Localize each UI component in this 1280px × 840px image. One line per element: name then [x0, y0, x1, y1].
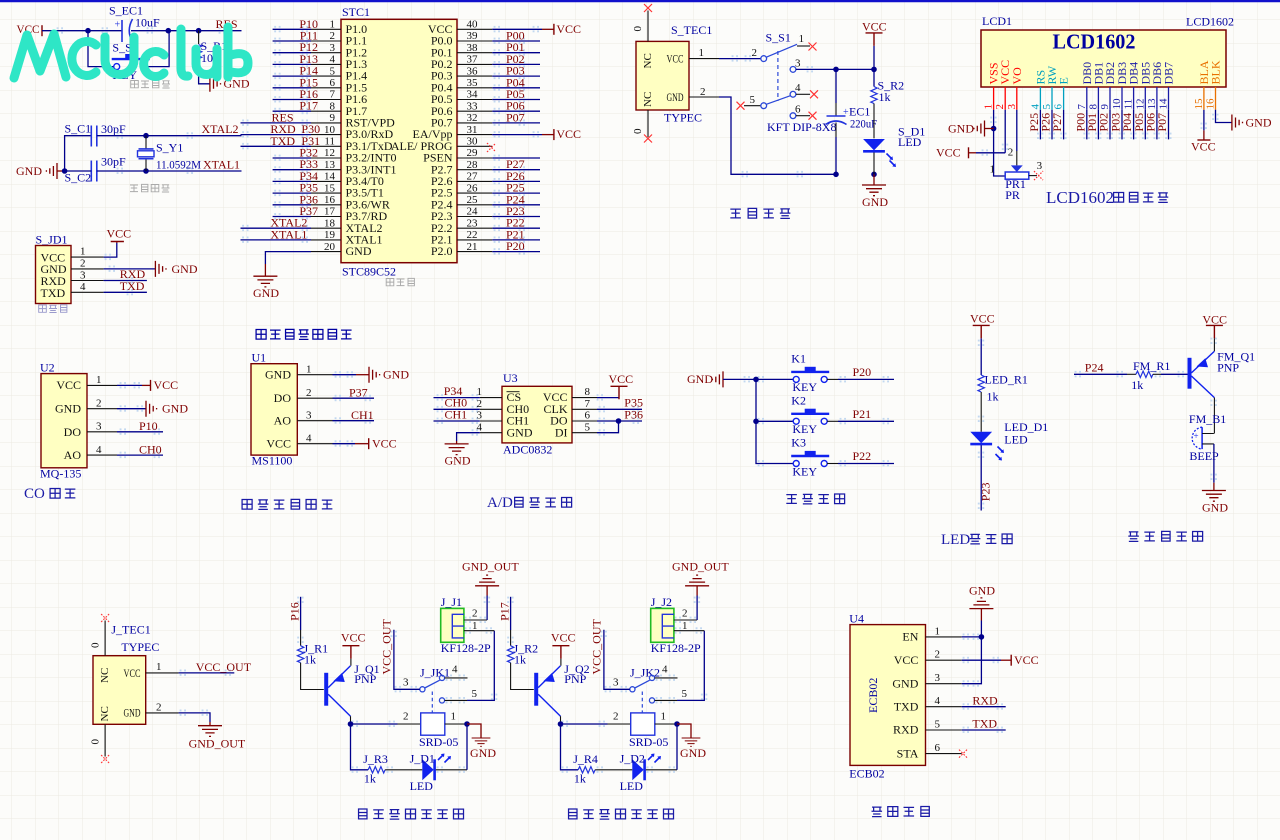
- svg-text:23: 23: [467, 217, 479, 229]
- connector J_J1 KF128-2P: [441, 595, 491, 655]
- svg-text:CH1: CH1: [445, 407, 468, 421]
- connector J_TEC1 TYPEC body: [93, 623, 159, 725]
- svg-text:36: 36: [467, 65, 479, 77]
- svg-text:GND: GND: [969, 584, 995, 598]
- svg-text:K1: K1: [791, 352, 806, 366]
- pin 0 top with X: [90, 614, 110, 656]
- title 按键电路: [786, 494, 844, 504]
- svg-text:STC89C52: STC89C52: [342, 265, 396, 279]
- svg-text:1: 1: [661, 711, 667, 723]
- svg-text:U1: U1: [252, 351, 267, 365]
- wire collector to coil node: [350, 716, 352, 724]
- svg-text:12: 12: [324, 147, 335, 159]
- pin 6 net P36: [572, 407, 643, 423]
- svg-text:P20: P20: [853, 365, 872, 379]
- svg-text:3: 3: [96, 421, 102, 433]
- svg-text:STC1: STC1: [342, 5, 370, 19]
- svg-text:9: 9: [1099, 104, 1111, 110]
- transistor FM_Q1 PNP: [1190, 349, 1256, 397]
- comment 单片机 (gray): [386, 278, 414, 285]
- svg-text:LCD1: LCD1: [982, 14, 1012, 28]
- svg-text:8: 8: [1087, 104, 1099, 110]
- svg-text:37: 37: [467, 54, 479, 66]
- svg-text:19: 19: [324, 229, 336, 241]
- coil pin1 wire + node: [445, 723, 467, 725]
- svg-text:S_JD1: S_JD1: [36, 233, 68, 247]
- svg-text:1: 1: [330, 19, 336, 31]
- svg-text:39: 39: [467, 30, 479, 42]
- svg-text:27: 27: [467, 171, 479, 183]
- STC1 pin 24: [457, 206, 540, 218]
- wire VCC down to top rail: [873, 46, 875, 70]
- svg-text:4: 4: [1029, 104, 1041, 110]
- svg-text:ECB02: ECB02: [849, 767, 884, 781]
- svg-text:XTAL1: XTAL1: [270, 227, 307, 241]
- STC1 pin 12: [273, 147, 341, 159]
- svg-text:GND: GND: [162, 402, 188, 416]
- pin 1 to GND: [297, 363, 369, 375]
- power port VCC: [151, 378, 179, 392]
- svg-text:21: 21: [467, 241, 478, 253]
- svg-text:1: 1: [477, 386, 483, 398]
- svg-text:4: 4: [96, 444, 102, 456]
- svg-text:P16: P16: [288, 602, 302, 621]
- svg-text:KEY: KEY: [792, 464, 817, 478]
- svg-text:S_C2: S_C2: [65, 171, 92, 185]
- title 继电器控制电路: [359, 809, 464, 819]
- relay coil SRD-05: [403, 711, 458, 750]
- svg-text:P10: P10: [139, 419, 158, 433]
- svg-text:VCC: VCC: [1014, 653, 1039, 667]
- svg-text:7: 7: [1076, 104, 1088, 110]
- svg-text:VCC: VCC: [894, 653, 919, 667]
- power port VCC: [554, 22, 581, 36]
- comment 晶振电路 (gray): [130, 184, 170, 192]
- svg-text:GND: GND: [346, 244, 372, 258]
- svg-text:S_Y1: S_Y1: [156, 141, 183, 155]
- wire VO to PR1 wiper: [1011, 110, 1023, 172]
- power port VCC: [970, 312, 995, 339]
- power port VCC (LCD): [936, 146, 976, 160]
- svg-text:GND: GND: [445, 454, 471, 468]
- wire node down to LED branch: [351, 724, 369, 770]
- STC1 pin 8: [273, 100, 341, 112]
- pin 5 DI joined to DO: [572, 421, 619, 433]
- button K2: [791, 394, 829, 437]
- resistor FM_R1 1k: [1131, 359, 1170, 392]
- LCD pin 1 VSS: [983, 62, 1001, 109]
- svg-text:VO: VO: [1010, 67, 1024, 85]
- svg-text:PNP: PNP: [1217, 360, 1239, 374]
- wire top rail to S_R2 column: [836, 68, 874, 70]
- STC1 pin 34: [457, 89, 540, 101]
- svg-text:GND_OUT: GND_OUT: [189, 737, 246, 751]
- svg-text:KEY: KEY: [792, 380, 817, 394]
- svg-text:10uF: 10uF: [135, 16, 160, 30]
- svg-text:VCC: VCC: [1191, 140, 1216, 154]
- svg-text:NC: NC: [99, 706, 111, 721]
- STC1 pin 14: [273, 171, 341, 183]
- svg-text:32: 32: [467, 112, 478, 124]
- relay coil SRD-05: [613, 711, 668, 750]
- svg-text:RXD: RXD: [893, 723, 919, 737]
- svg-text:DB7: DB7: [1162, 62, 1176, 85]
- pin 2 wire down to bottom rail: [689, 86, 836, 174]
- wire resistor to base: [511, 663, 534, 690]
- wire resistor to base: [1153, 373, 1161, 375]
- svg-text:J_D2: J_D2: [620, 752, 645, 766]
- wire collector down to buzzer: [1213, 398, 1215, 434]
- STC1 pin 32: [457, 112, 540, 124]
- svg-text:20: 20: [324, 241, 336, 253]
- svg-text:LED_R1: LED_R1: [985, 373, 1028, 387]
- STC1 pin 35: [457, 77, 540, 89]
- ground (coil): [467, 724, 496, 760]
- svg-text:K2: K2: [791, 394, 806, 408]
- svg-text:0: 0: [90, 739, 102, 745]
- svg-text:TXD: TXD: [972, 717, 997, 731]
- svg-text:SRD-05: SRD-05: [419, 735, 458, 749]
- svg-text:TXD: TXD: [120, 279, 145, 293]
- svg-text:7: 7: [330, 89, 336, 101]
- svg-text:VCC: VCC: [341, 631, 366, 645]
- svg-text:0: 0: [90, 642, 102, 648]
- STC1 pin 29: [457, 147, 540, 159]
- pin 2 net CH0: [434, 396, 503, 410]
- LCD pin 9 DB2: [1099, 62, 1117, 110]
- top sheet border line: [0, 0, 1280, 2]
- svg-text:GND: GND: [470, 746, 496, 760]
- title LCD1602显示电路: [1046, 188, 1168, 207]
- LCD pin 10 DB3: [1111, 62, 1129, 110]
- pin 1 to VCC: [87, 374, 151, 386]
- svg-text:CH1: CH1: [351, 408, 374, 422]
- svg-text:PR: PR: [1005, 188, 1020, 202]
- connector pin1 wire: [464, 630, 494, 632]
- svg-text:13: 13: [1146, 98, 1158, 110]
- mechanical dashed link: [777, 51, 779, 101]
- svg-text:2: 2: [306, 387, 312, 399]
- sensor U2 MQ-135 body: [40, 361, 87, 481]
- svg-text:DI: DI: [555, 425, 568, 439]
- svg-text:2: 2: [752, 47, 758, 59]
- LED J_D1: [385, 752, 451, 793]
- LED S_D1: [863, 104, 925, 175]
- resistor LED_R1 1k: [978, 373, 1028, 404]
- svg-text:GND: GND: [1246, 116, 1272, 130]
- svg-text:3: 3: [306, 409, 312, 421]
- svg-text:TYPEC: TYPEC: [664, 111, 702, 125]
- push button S_S2: [112, 41, 150, 83]
- wire VCC to emitter: [1213, 338, 1215, 351]
- wire + net label P01: [1085, 110, 1099, 140]
- svg-text:TYPEC: TYPEC: [121, 640, 159, 654]
- STC1 pin 38: [457, 42, 540, 54]
- svg-text:5: 5: [472, 688, 478, 700]
- wire pin2 to GND: [104, 268, 156, 270]
- wire BLK to ground: [1216, 110, 1272, 131]
- svg-text:U4: U4: [849, 612, 864, 626]
- svg-text:40: 40: [467, 19, 479, 31]
- wire + net label P07: [1155, 110, 1169, 140]
- power port VCC: [1011, 653, 1038, 667]
- STC1 pin 6: [273, 77, 341, 89]
- svg-text:14: 14: [1158, 98, 1170, 110]
- svg-text:4: 4: [330, 54, 336, 66]
- STC1 pin 22: [457, 229, 540, 241]
- svg-text:4: 4: [477, 421, 483, 433]
- title 蜂鸣器电路: [1128, 531, 1202, 541]
- wire LED to P23: [980, 445, 982, 510]
- comment 按键复位 (gray): [131, 80, 170, 88]
- svg-text:1k: 1k: [879, 90, 891, 104]
- svg-text:VCC: VCC: [970, 312, 995, 326]
- svg-text:LCD1602: LCD1602: [1186, 15, 1234, 29]
- svg-text:3: 3: [1037, 160, 1043, 172]
- wire gnd to K1 and bus down: [723, 378, 793, 380]
- svg-text:1: 1: [935, 625, 941, 637]
- STC1 pin 18: [241, 217, 342, 229]
- svg-text:VCC: VCC: [667, 52, 684, 66]
- svg-text:P17: P17: [498, 602, 512, 621]
- svg-text:GND: GND: [16, 164, 42, 178]
- svg-text:GND: GND: [667, 90, 684, 104]
- svg-text:1k: 1k: [574, 772, 586, 786]
- wire K1 to P20: [827, 378, 838, 380]
- STC1 pin 27: [457, 171, 540, 183]
- svg-text:VCC_OUT: VCC_OUT: [196, 660, 252, 674]
- LCD pin 8 DB1: [1087, 62, 1105, 110]
- svg-text:VCC: VCC: [936, 146, 961, 160]
- wire resistor to LED: [980, 392, 982, 432]
- svg-text:8: 8: [585, 386, 591, 398]
- svg-text:3: 3: [1006, 104, 1018, 110]
- STC1 pin 13: [273, 159, 341, 171]
- svg-text:10: 10: [1111, 98, 1123, 110]
- pin 3 net CH1: [434, 407, 503, 421]
- svg-text:1k: 1k: [1131, 378, 1143, 392]
- capacitor EC1 220uF: [826, 69, 878, 174]
- svg-text:1: 1: [983, 104, 995, 110]
- wire contact 5 to connector pin 1: [467, 631, 494, 701]
- ground (power): [862, 174, 888, 209]
- svg-text:GND: GND: [680, 746, 706, 760]
- pin 0 bottom with X: [90, 724, 110, 763]
- ground (U3): [445, 441, 471, 468]
- svg-text:1k: 1k: [514, 653, 526, 667]
- button K1: [791, 352, 829, 395]
- title 单片机最小系统: [256, 329, 351, 339]
- svg-text:P24: P24: [1085, 361, 1104, 375]
- pin 3 net P10: [87, 419, 163, 433]
- wire contact 5 to connector pin 1: [677, 631, 704, 701]
- svg-text:12: 12: [1134, 99, 1146, 110]
- svg-text:LED: LED: [941, 532, 970, 548]
- potentiometer PR1: [990, 147, 1044, 202]
- svg-text:+: +: [115, 20, 121, 31]
- svg-text:1: 1: [799, 33, 805, 45]
- svg-text:LED: LED: [1004, 433, 1028, 447]
- capacitor S_EC1 10uF: [109, 4, 160, 43]
- LCD pin 2 VCC: [994, 60, 1012, 110]
- svg-text:XTAL2: XTAL2: [202, 122, 239, 136]
- svg-text:15: 15: [1193, 98, 1205, 110]
- power port VCC: [862, 20, 887, 46]
- svg-text:A/D: A/D: [487, 495, 513, 511]
- STC1 pin 39: [457, 30, 540, 42]
- svg-text:KFT DIP-8X8: KFT DIP-8X8: [767, 120, 836, 134]
- crystal S_Y1 11.0592M: [138, 136, 202, 172]
- LCD pin 16 BLK: [1205, 60, 1223, 110]
- pin 4 to VCC: [297, 432, 368, 444]
- svg-text:SRD-05: SRD-05: [629, 735, 668, 749]
- svg-text:VCC: VCC: [556, 22, 581, 36]
- svg-text:VCC: VCC: [551, 631, 576, 645]
- svg-text:11: 11: [324, 136, 335, 148]
- wire resistor to ground: [199, 62, 210, 84]
- svg-text:FM_R1: FM_R1: [1133, 359, 1170, 373]
- svg-text:K3: K3: [791, 436, 806, 450]
- svg-text:1: 1: [451, 711, 457, 723]
- wire + net label P05: [1132, 110, 1146, 140]
- svg-text:NC: NC: [99, 668, 111, 683]
- wire + net label P03: [1109, 110, 1123, 140]
- LCD pin 3 VO: [1006, 67, 1024, 110]
- pin 0 bottom with X: [632, 110, 652, 143]
- svg-text:DO: DO: [64, 425, 82, 439]
- STC1 pin 15: [273, 182, 341, 194]
- svg-text:U3: U3: [503, 371, 518, 385]
- resistor S_R1 10k: [195, 39, 227, 65]
- wire K2 to P21: [827, 420, 838, 422]
- pin 1 EN to gnd node: [926, 625, 985, 639]
- svg-text:GND: GND: [124, 706, 141, 720]
- svg-text:STA: STA: [897, 746, 919, 760]
- pin 3 net CH1: [297, 408, 374, 422]
- svg-text:FM_B1: FM_B1: [1189, 412, 1226, 426]
- relay contacts J_JK2: [613, 664, 688, 713]
- svg-text:16: 16: [1205, 98, 1217, 110]
- STC1 pin 5: [273, 65, 341, 77]
- svg-text:VCC: VCC: [609, 372, 634, 386]
- svg-text:VCC: VCC: [862, 20, 887, 34]
- svg-text:GND: GND: [862, 195, 888, 209]
- power port VCC: [341, 631, 366, 666]
- STC1 pin 16: [273, 194, 341, 206]
- svg-text:2: 2: [682, 607, 688, 619]
- pin 5 net TXD: [926, 717, 1006, 731]
- svg-text:31: 31: [467, 124, 478, 136]
- svg-text:VCC: VCC: [372, 437, 397, 451]
- svg-text:5: 5: [935, 719, 941, 731]
- svg-text:PNP: PNP: [354, 672, 376, 686]
- svg-text:17: 17: [324, 206, 336, 218]
- svg-text:P07: P07: [506, 110, 525, 124]
- ground (coil): [677, 724, 706, 760]
- svg-text:P07: P07: [1155, 113, 1169, 132]
- svg-text:U2: U2: [40, 361, 55, 375]
- ground (crystal): [16, 163, 57, 179]
- svg-text:ADC0832: ADC0832: [503, 443, 552, 457]
- svg-text:VCC: VCC: [1202, 313, 1227, 327]
- wire + net label P26: [1039, 110, 1053, 140]
- connector S_JD1: [36, 233, 72, 304]
- svg-text:1k: 1k: [364, 772, 376, 786]
- svg-text:AO: AO: [64, 448, 82, 462]
- node junction dots on reset rail: [85, 28, 91, 34]
- STC1 pin 7: [273, 89, 341, 101]
- svg-text:TXD: TXD: [894, 699, 919, 713]
- svg-text:5: 5: [1041, 104, 1053, 110]
- wire K3 to P22: [827, 463, 838, 465]
- svg-text:CO: CO: [24, 486, 45, 502]
- capacitor S_C1 30pF: [65, 122, 127, 147]
- svg-text:1: 1: [990, 164, 996, 176]
- STC1 pin 19: [241, 229, 342, 241]
- wire resistor to base: [301, 663, 324, 690]
- ground GND_OUT (up): [672, 560, 729, 596]
- ground GND_OUT (up): [462, 560, 519, 596]
- wire left riser: [65, 136, 92, 171]
- svg-text:5: 5: [585, 421, 591, 433]
- STC1 pin 37: [457, 54, 540, 66]
- svg-text:10: 10: [324, 124, 336, 136]
- svg-text:5: 5: [682, 688, 688, 700]
- svg-text:18: 18: [324, 217, 336, 229]
- svg-text:1: 1: [156, 661, 162, 673]
- svg-text:38: 38: [467, 42, 479, 54]
- wire pin1 to VCC: [104, 243, 117, 257]
- transistor J_Q1 PNP: [326, 662, 379, 716]
- svg-text:XTAL1: XTAL1: [203, 158, 240, 172]
- wire VCC to S_EC1: [42, 30, 122, 32]
- svg-text:9: 9: [330, 112, 336, 124]
- coil pin1 wire + node: [655, 723, 677, 725]
- pin 8 to VCC: [572, 386, 619, 398]
- svg-text:33: 33: [467, 100, 479, 112]
- svg-text:P20: P20: [506, 239, 525, 253]
- power port VCC: [554, 127, 581, 141]
- svg-text:30pF: 30pF: [101, 122, 126, 136]
- svg-text:KF128-2P: KF128-2P: [441, 641, 491, 655]
- module U4 ECB02 body: [849, 612, 925, 781]
- svg-text:P37: P37: [349, 386, 368, 400]
- ground (keys): [687, 371, 723, 387]
- svg-text:GND: GND: [948, 122, 974, 136]
- svg-text:1: 1: [699, 47, 705, 59]
- title 蓝牙模块: [872, 807, 930, 817]
- svg-text:J_D1: J_D1: [410, 752, 435, 766]
- svg-text:KF128-2P: KF128-2P: [651, 641, 701, 655]
- STC1 pin names: [346, 22, 453, 258]
- wire RES node down to resistor: [198, 31, 200, 44]
- connector pin2 wire up: [464, 619, 487, 621]
- title CO监测: [24, 486, 75, 502]
- svg-text:3: 3: [330, 42, 336, 54]
- svg-text:6: 6: [585, 410, 591, 422]
- resistor S_R2 1k: [871, 69, 904, 104]
- svg-text:J_TEC1: J_TEC1: [111, 623, 150, 637]
- buzzer FM_B1 BEEP: [1189, 412, 1226, 463]
- svg-text:P27: P27: [1050, 113, 1064, 132]
- STC1 pin 23: [457, 217, 540, 229]
- svg-text:3: 3: [613, 677, 619, 689]
- ADC U3 body: [502, 371, 572, 457]
- svg-text:4: 4: [935, 695, 941, 707]
- svg-text:LCD1602: LCD1602: [1046, 188, 1114, 207]
- svg-text:6: 6: [935, 742, 941, 754]
- STC1 pin 21: [457, 241, 540, 253]
